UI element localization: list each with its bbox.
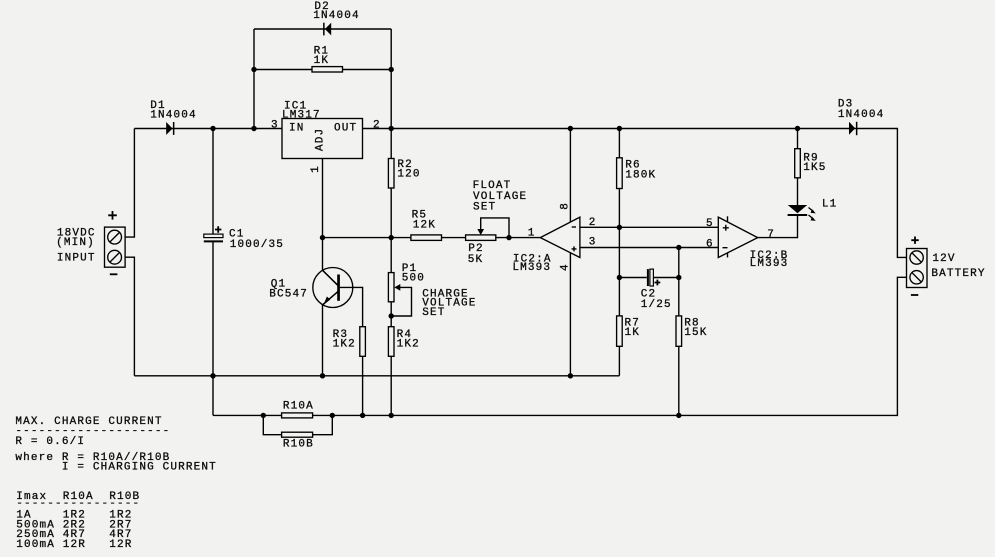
svg-text:7: 7 xyxy=(767,229,775,241)
svg-text:SET: SET xyxy=(473,202,496,214)
svg-text:12V: 12V xyxy=(932,253,955,265)
svg-text:100mA 12R 12R: 100mA 12R 12R xyxy=(16,539,132,551)
svg-text:1: 1 xyxy=(310,165,322,173)
svg-text:12K: 12K xyxy=(413,220,436,232)
svg-text:1/25: 1/25 xyxy=(641,299,672,311)
svg-text:LM393: LM393 xyxy=(750,258,789,270)
svg-text:4: 4 xyxy=(560,263,572,271)
svg-text:R10B: R10B xyxy=(283,439,314,451)
svg-text:R10A: R10A xyxy=(283,401,314,413)
svg-text:1K2: 1K2 xyxy=(397,339,420,351)
svg-text:BATTERY: BATTERY xyxy=(931,268,985,280)
svg-text:3: 3 xyxy=(271,119,279,131)
svg-text:1N4004: 1N4004 xyxy=(313,10,360,22)
svg-text:6: 6 xyxy=(706,238,714,250)
svg-text:5K: 5K xyxy=(468,254,484,266)
svg-text:LM317: LM317 xyxy=(282,110,321,122)
svg-text:R = 0.6/I: R = 0.6/I xyxy=(15,436,85,448)
svg-text:500: 500 xyxy=(402,273,425,285)
svg-text:8: 8 xyxy=(560,202,572,210)
svg-text:1K5: 1K5 xyxy=(803,162,826,174)
svg-text:5: 5 xyxy=(706,218,714,230)
svg-text:L1: L1 xyxy=(822,198,838,210)
svg-text:15K: 15K xyxy=(684,327,707,339)
svg-text:SET: SET xyxy=(422,307,445,319)
svg-text:(MIN): (MIN) xyxy=(56,237,95,249)
svg-text:180K: 180K xyxy=(625,169,656,181)
svg-text:1000/35: 1000/35 xyxy=(230,239,284,251)
svg-text:1K2: 1K2 xyxy=(333,339,356,351)
svg-text:1: 1 xyxy=(528,228,536,240)
svg-text:1N4004: 1N4004 xyxy=(838,109,885,121)
svg-text:120: 120 xyxy=(397,168,420,180)
svg-text:1K: 1K xyxy=(625,327,641,339)
svg-text:I = CHARGING CURRENT: I = CHARGING CURRENT xyxy=(15,461,217,473)
svg-text:----------------: ---------------- xyxy=(16,498,140,510)
svg-text:3: 3 xyxy=(589,237,597,249)
svg-text:BC547: BC547 xyxy=(269,288,308,300)
svg-text:IN: IN xyxy=(289,123,305,135)
svg-text:1K: 1K xyxy=(314,55,330,67)
svg-text:LM393: LM393 xyxy=(512,262,551,274)
svg-text:OUT: OUT xyxy=(334,123,357,135)
svg-text:ADJ: ADJ xyxy=(314,128,326,151)
svg-text:2: 2 xyxy=(373,119,381,131)
svg-text:2: 2 xyxy=(589,217,597,229)
svg-text:1N4004: 1N4004 xyxy=(150,110,197,122)
svg-text:INPUT: INPUT xyxy=(57,253,96,265)
